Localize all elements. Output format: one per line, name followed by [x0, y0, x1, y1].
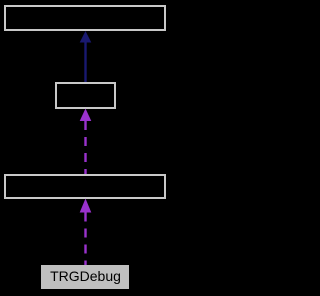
class box TRGDebug (current class, gray filled)	[41, 265, 130, 290]
class box (top parent class)	[4, 5, 166, 31]
usage arrowhead (dashed purple arrow, pointing up into lower box)	[80, 199, 92, 213]
usage arrow dashed shaft (middle to lower box)	[84, 121, 86, 174]
inheritance arrow shaft (solid dark blue)	[84, 43, 86, 83]
class box (lower wide class)	[4, 174, 166, 199]
usage arrow dashed shaft (lower box to TRGDebug)	[84, 213, 86, 266]
inheritance arrowhead (solid dark blue, pointing up into top box)	[80, 31, 92, 43]
usage arrowhead (dashed purple arrow, pointing up into middle box)	[80, 109, 92, 122]
class box (middle base class)	[55, 82, 116, 109]
